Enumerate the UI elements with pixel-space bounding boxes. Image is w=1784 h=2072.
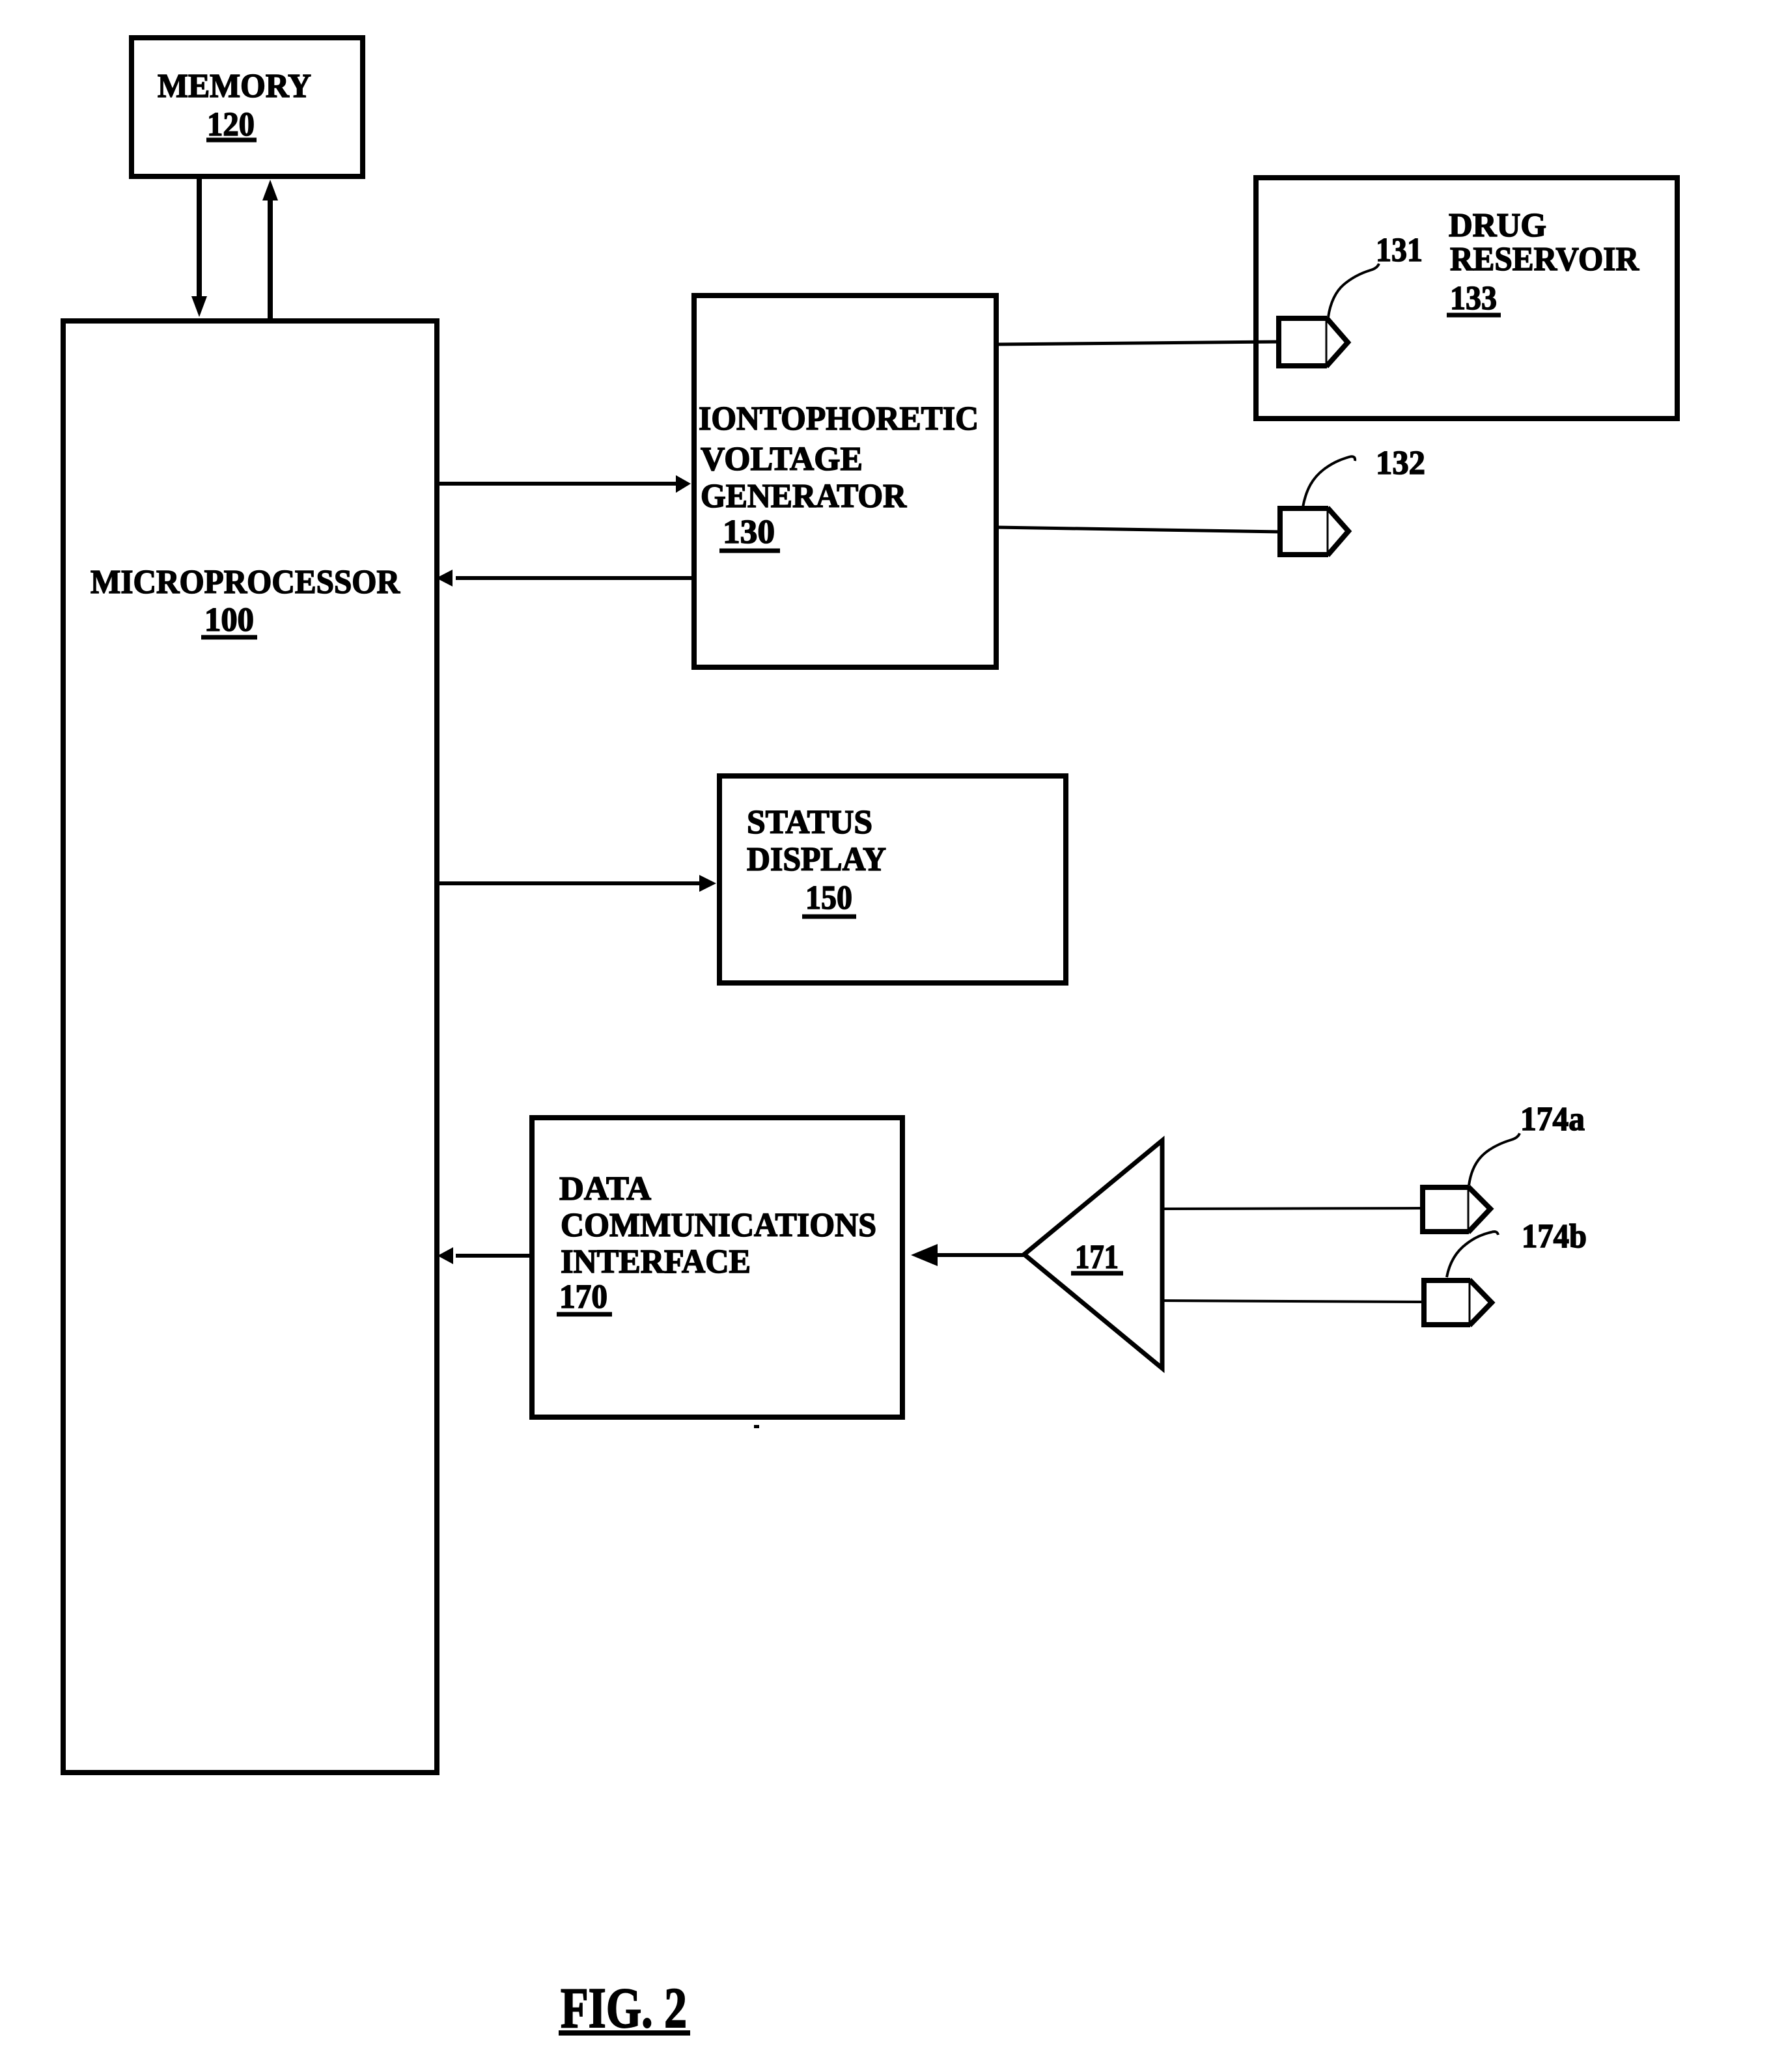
svg-text:174b: 174b [1522,1218,1587,1255]
svg-text:VOLTAGE: VOLTAGE [701,441,863,478]
svg-text:GENERATOR: GENERATOR [701,478,907,515]
svg-text:COMMUNICATIONS: COMMUNICATIONS [561,1207,876,1244]
svg-text:170: 170 [559,1278,607,1316]
svg-text:133: 133 [1450,280,1497,317]
svg-text:174a: 174a [1520,1101,1585,1138]
svg-text:130: 130 [723,514,775,551]
svg-text:132: 132 [1376,445,1425,482]
svg-text:RESERVOIR: RESERVOIR [1450,241,1639,278]
svg-text:171: 171 [1075,1239,1119,1276]
svg-text:IONTOPHORETIC: IONTOPHORETIC [699,400,979,437]
svg-text:120: 120 [207,106,255,143]
svg-text:DATA: DATA [559,1170,651,1208]
svg-text:INTERFACE: INTERFACE [561,1243,751,1280]
svg-text:STATUS: STATUS [747,804,872,841]
svg-text:150: 150 [805,879,852,917]
svg-text:131: 131 [1376,232,1423,269]
svg-text:MICROPROCESSOR: MICROPROCESSOR [91,564,400,601]
svg-text:MEMORY: MEMORY [158,68,311,105]
svg-text:DISPLAY: DISPLAY [747,841,886,878]
svg-text:100: 100 [204,601,254,639]
svg-text:DRUG: DRUG [1449,207,1546,244]
